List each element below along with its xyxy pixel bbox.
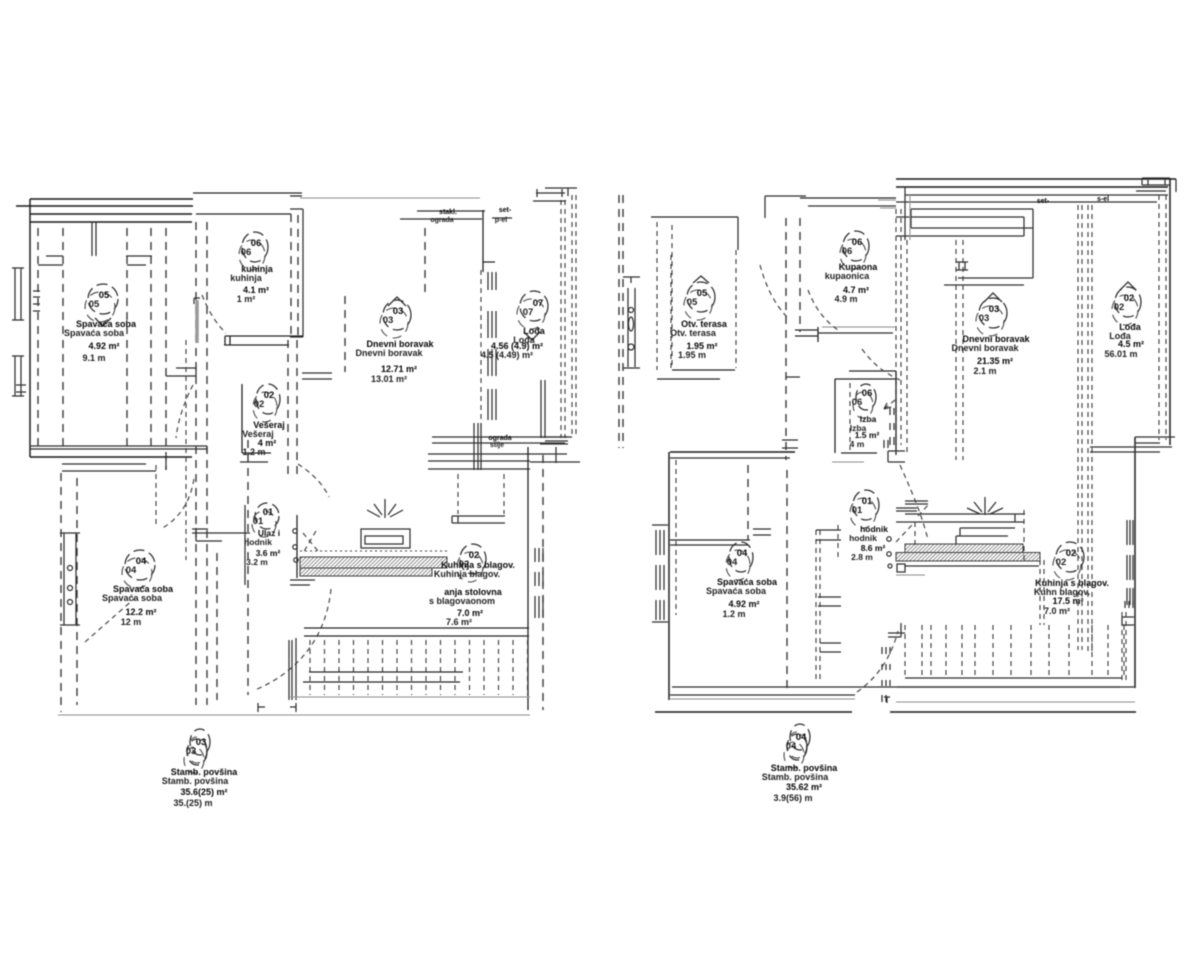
window left upper [12, 268, 40, 320]
svg-text:12.71 m²: 12.71 m² [381, 364, 417, 374]
svg-text:Spavaća soba: Spavaća soba [706, 586, 767, 596]
svg-text:1.2 m: 1.2 m [242, 447, 265, 457]
room01 label [255, 503, 279, 529]
svg-text:2.1 m: 2.1 m [973, 366, 996, 376]
svg-text:02: 02 [1056, 557, 1067, 568]
svg-text:02: 02 [1124, 293, 1135, 304]
room02 walls [242, 384, 271, 453]
svg-text:03: 03 [989, 304, 1000, 315]
svg-text:05: 05 [99, 290, 110, 301]
glass label leaders loggia [400, 211, 512, 219]
svg-text:3.2 m: 3.2 m [246, 557, 268, 567]
label bottom left [190, 729, 210, 755]
svg-text:06: 06 [862, 388, 873, 399]
room06 label [242, 232, 268, 262]
svg-text:stakl.: stakl. [439, 209, 457, 216]
svg-text:s-el: s-el [1097, 196, 1109, 203]
diagonal door dash room04 [85, 598, 135, 642]
corridor dashes [676, 460, 838, 680]
kitchenR counter [896, 514, 1025, 545]
sill small below loggia [452, 516, 505, 523]
svg-text:02: 02 [254, 399, 265, 410]
svg-text:stije: stije [490, 442, 504, 449]
svg-text:21.35 m²: 21.35 m² [977, 356, 1013, 366]
svg-text:4.9 m: 4.9 m [834, 294, 857, 304]
svg-text:05: 05 [89, 299, 100, 310]
svg-text:03: 03 [383, 315, 394, 326]
svg-text:04: 04 [126, 565, 137, 576]
svg-text:1 m²: 1 m² [237, 294, 256, 304]
svg-text:03: 03 [979, 313, 990, 324]
svg-text:4.5 (4.49) m²: 4.5 (4.49) m² [481, 350, 533, 360]
loggia bottom bundle [428, 437, 580, 469]
wall left exterior [29, 199, 31, 457]
right exterior wall [1169, 179, 1171, 445]
kitchenR faucet [967, 497, 1003, 515]
wall stub left of room02 [166, 368, 196, 376]
loggiaR right wall [1134, 437, 1136, 688]
stairs R lines [897, 678, 1122, 687]
dashes near hatch R [1040, 560, 1044, 625]
door arc 06R [808, 290, 838, 330]
svg-text:06: 06 [852, 237, 863, 248]
wall top band left [16, 199, 193, 222]
svg-text:35.62 m²: 35.62 m² [786, 782, 822, 792]
kitchen hatch bar [300, 557, 447, 568]
label bottom right [790, 724, 810, 750]
window marks loggiaR wall [1127, 520, 1133, 605]
svg-text:9.1 m: 9.1 m [82, 353, 105, 363]
svg-text:Dnevni boravak: Dnevni boravak [355, 348, 423, 358]
room05 dashed ceiling lines [38, 228, 166, 470]
svg-text:04: 04 [136, 556, 147, 567]
svg-text:06: 06 [842, 246, 853, 257]
loggiaR bottom [1090, 447, 1172, 452]
svg-text:Stamb. povšina: Stamb. povšina [762, 772, 830, 782]
glass wall continuation [474, 423, 481, 470]
stairs R ticks [905, 625, 1124, 677]
faucet [367, 499, 403, 518]
loggiaR left double dashes [1078, 205, 1092, 655]
room03R label [984, 293, 1002, 302]
svg-text:06: 06 [241, 247, 252, 258]
svg-text:13.01 m²: 13.01 m² [371, 374, 407, 384]
entry door arc [161, 479, 194, 529]
room04 label [125, 550, 155, 580]
wall top middle room06 [193, 193, 302, 214]
svg-text:Spavaća soba: Spavaća soba [102, 593, 163, 603]
svg-text:07: 07 [523, 307, 534, 318]
dim bracket top right [533, 188, 577, 201]
door stubs corridor [753, 529, 841, 652]
svg-text:1.2 m: 1.2 m [722, 609, 745, 619]
loggia dash left [424, 228, 426, 292]
terrace baseline [58, 697, 530, 715]
svg-text:35.6(25) m²: 35.6(25) m² [180, 787, 227, 797]
room05 pier lines [38, 222, 152, 265]
svg-text:56.01 m: 56.01 m [1104, 349, 1137, 359]
loggiaR label [1120, 282, 1136, 290]
connector top [765, 196, 806, 218]
between units dash [542, 455, 544, 710]
room03 label [388, 297, 406, 306]
svg-text:05: 05 [697, 288, 708, 299]
door frame triple [258, 638, 296, 712]
svg-text:p-el: p-el [495, 217, 508, 224]
counter [361, 529, 410, 548]
stairs left ticks [310, 640, 528, 695]
svg-text:set-: set- [1037, 198, 1050, 205]
wall top band right [896, 179, 1176, 187]
kitchen-dining label [460, 544, 486, 574]
svg-text:Dnevni boravak: Dnevni boravak [951, 343, 1019, 353]
room04R label [729, 542, 753, 572]
svg-text:ograda: ograda [488, 435, 511, 442]
room05 label [88, 284, 118, 314]
sill below room06 [224, 336, 303, 345]
hinge circles [293, 529, 297, 533]
left wall room04R [668, 452, 670, 700]
svg-text:7.0 m²: 7.0 m² [1044, 606, 1070, 616]
interior wall [670, 539, 750, 541]
svg-text:17.5 m²: 17.5 m² [1052, 596, 1083, 606]
svg-text:01: 01 [263, 507, 274, 518]
door arc room06 [202, 295, 226, 333]
svg-text:01: 01 [862, 496, 873, 507]
izba door arrow [884, 400, 895, 409]
svg-text:Spavaća soba: Spavaća soba [64, 328, 125, 338]
room04 dashes [61, 440, 248, 712]
door arc bottomR [857, 631, 898, 692]
svg-text:1.95 m: 1.95 m [678, 350, 706, 360]
svg-text:05: 05 [687, 297, 698, 308]
entry wall stubs room01 [192, 528, 250, 541]
svg-text:04: 04 [727, 557, 738, 568]
room02 dashes [288, 340, 297, 475]
wall kitchen left [296, 515, 298, 578]
loggia right dashes [561, 195, 576, 438]
svg-text:03: 03 [393, 306, 404, 317]
big door arc kitchen [255, 589, 331, 690]
room06R label [843, 231, 869, 261]
door arcs R top [760, 265, 788, 318]
room06R walls [800, 197, 896, 199]
svg-text:01: 01 [852, 505, 863, 516]
svg-text:hodnik: hodnik [849, 533, 877, 543]
glass wall triple marks loggia [488, 272, 496, 420]
door arc room02 [176, 385, 193, 438]
stairs left mid lines [303, 672, 463, 682]
corridor stubs left [782, 377, 800, 448]
svg-text:02: 02 [264, 390, 275, 401]
window band room03R [896, 209, 1033, 278]
wall room05 bottom [30, 446, 207, 453]
svg-text:02: 02 [1066, 548, 1077, 559]
window marks left wall R [652, 525, 668, 622]
window left lower [12, 356, 26, 396]
svg-text:04: 04 [737, 548, 748, 559]
svg-text:kuhinja: kuhinja [230, 273, 262, 283]
svg-text:ograda: ograda [430, 217, 453, 224]
svg-text:07: 07 [533, 298, 544, 309]
wall stub to room03 [302, 373, 332, 379]
wall top faint [300, 197, 480, 199]
room02 label [256, 384, 280, 414]
room01R label [853, 490, 879, 520]
svg-text:12 m: 12 m [121, 617, 142, 627]
door arc kitchenR [900, 465, 928, 540]
terasa label [687, 282, 715, 312]
terasa window [623, 277, 640, 368]
svg-text:4.5 m²: 4.5 m² [1118, 339, 1144, 349]
small lines below hatch [290, 580, 315, 585]
bottom walls R [672, 686, 1135, 688]
dotted counter edge [300, 550, 448, 552]
room06R dashes [786, 218, 800, 460]
svg-text:02: 02 [1114, 302, 1125, 313]
svg-text:7.6 m²: 7.6 m² [446, 617, 472, 627]
svg-text:12.2 m²: 12.2 m² [125, 607, 156, 617]
svg-text:Otv. terasa: Otv. terasa [670, 328, 717, 338]
loggia left wall [483, 210, 495, 272]
svg-text:s blagovaonom: s blagovaonom [429, 596, 495, 606]
svg-text:Kuhinja blagov.: Kuhinja blagov. [434, 569, 500, 579]
corridorR top walls [670, 451, 795, 453]
kitchenR hatch bar [905, 544, 1023, 553]
room06R bottom [822, 326, 895, 328]
izba 06Rb [835, 371, 896, 455]
svg-text:4 m: 4 m [850, 439, 865, 449]
svg-text:35.(25) m: 35.(25) m [173, 798, 212, 808]
svg-text:06: 06 [251, 238, 262, 249]
window marks right wall [535, 548, 543, 618]
loggia label [520, 291, 548, 321]
svg-text:set-: set- [499, 207, 512, 214]
room06 dashes [196, 214, 345, 705]
svg-text:Stamb. povšina: Stamb. povšina [162, 776, 230, 786]
terasa 05R box [651, 217, 738, 379]
svg-text:4.92 m²: 4.92 m² [88, 341, 119, 351]
svg-text:06: 06 [852, 397, 863, 408]
svg-text:01: 01 [253, 516, 264, 527]
stairs left top lines [304, 628, 529, 636]
door arc bottom [298, 464, 329, 497]
svg-text:2.8 m: 2.8 m [851, 552, 873, 562]
kitchenR label [1056, 542, 1084, 572]
left unit right wall [527, 447, 529, 710]
svg-text:kupaonica: kupaonica [825, 271, 871, 281]
room04 window [60, 533, 80, 625]
svg-text:3.9(56) m: 3.9(56) m [773, 793, 812, 803]
svg-text:4.92 m²: 4.92 m² [728, 599, 759, 609]
